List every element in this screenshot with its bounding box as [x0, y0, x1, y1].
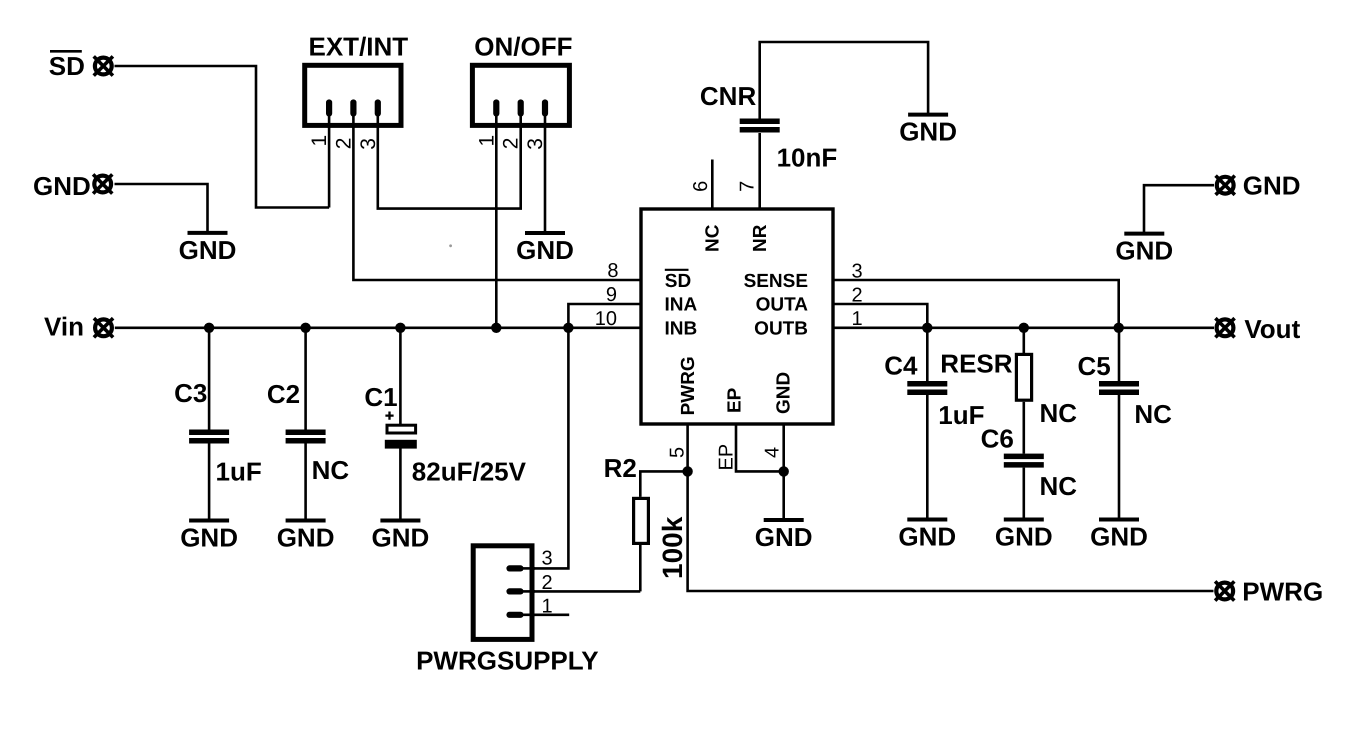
- svg-text:GND: GND: [774, 372, 795, 414]
- svg-text:3: 3: [524, 138, 547, 150]
- svg-text:1: 1: [542, 596, 553, 618]
- svg-text:SD: SD: [665, 271, 691, 292]
- svg-text:3: 3: [542, 548, 553, 570]
- svg-text:7: 7: [737, 181, 759, 192]
- svg-text:EP: EP: [716, 444, 738, 471]
- svg-text:4: 4: [762, 447, 784, 458]
- svg-text:PWRGSUPPLY: PWRGSUPPLY: [416, 645, 599, 675]
- svg-text:1uF: 1uF: [216, 457, 262, 487]
- svg-text:PWRG: PWRG: [678, 356, 699, 415]
- svg-text:1uF: 1uF: [938, 400, 984, 430]
- svg-text:CNR: CNR: [700, 81, 757, 111]
- svg-text:6: 6: [690, 181, 712, 192]
- svg-text:NC: NC: [1040, 398, 1078, 428]
- svg-text:9: 9: [606, 284, 617, 306]
- svg-text:R2: R2: [604, 453, 637, 483]
- svg-text:OUTB: OUTB: [754, 318, 808, 339]
- svg-text:NR: NR: [750, 224, 771, 252]
- svg-text:100k: 100k: [657, 516, 688, 579]
- svg-text:RESR: RESR: [940, 349, 1012, 379]
- svg-text:OUTA: OUTA: [756, 295, 809, 316]
- svg-text:1: 1: [852, 308, 863, 330]
- svg-text:NC: NC: [703, 224, 724, 252]
- svg-text:ON/OFF: ON/OFF: [474, 32, 572, 62]
- svg-text:GND: GND: [1243, 170, 1301, 200]
- svg-text:NC: NC: [1040, 471, 1078, 501]
- svg-text:NC: NC: [1134, 399, 1172, 429]
- svg-text:2: 2: [500, 138, 523, 150]
- svg-text:2: 2: [542, 572, 553, 594]
- svg-text:C3: C3: [174, 378, 207, 408]
- svg-text:Vin: Vin: [44, 312, 84, 342]
- svg-text:1: 1: [308, 135, 331, 147]
- svg-text:2: 2: [332, 138, 355, 150]
- svg-text:EXT/INT: EXT/INT: [309, 32, 409, 62]
- svg-text:SD: SD: [49, 51, 85, 81]
- svg-text:EP: EP: [725, 387, 746, 413]
- svg-text:INA: INA: [665, 295, 698, 316]
- svg-text:C4: C4: [884, 351, 918, 381]
- svg-text:INB: INB: [665, 318, 698, 339]
- svg-text:5: 5: [667, 447, 689, 458]
- svg-text:C1: C1: [364, 382, 397, 412]
- svg-text:NC: NC: [312, 455, 350, 485]
- svg-text:10nF: 10nF: [777, 142, 838, 172]
- svg-text:2: 2: [852, 285, 863, 307]
- svg-text:SENSE: SENSE: [744, 271, 808, 292]
- svg-text:PWRG: PWRG: [1242, 577, 1323, 607]
- svg-text:8: 8: [607, 260, 618, 282]
- svg-text:82uF/25V: 82uF/25V: [412, 457, 527, 487]
- svg-text:GND: GND: [33, 171, 91, 201]
- svg-text:C2: C2: [267, 379, 300, 409]
- svg-text:10: 10: [595, 308, 617, 330]
- svg-text:C6: C6: [981, 424, 1014, 454]
- svg-text:C5: C5: [1078, 351, 1111, 381]
- svg-text:3: 3: [357, 138, 380, 150]
- svg-text:3: 3: [852, 261, 863, 283]
- svg-text:1: 1: [475, 135, 498, 147]
- svg-text:Vout: Vout: [1244, 314, 1300, 344]
